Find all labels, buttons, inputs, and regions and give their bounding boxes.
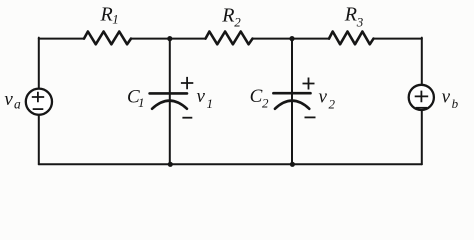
svg-text:v: v bbox=[197, 86, 206, 107]
svg-text:v: v bbox=[4, 89, 13, 110]
wire top rail between node 2 and R3 bbox=[292, 38, 329, 40]
wire capacitor C2 branch bbox=[291, 39, 293, 165]
svg-text:C: C bbox=[250, 86, 263, 107]
node 2 (top junction R2/R3/C2) bbox=[289, 36, 294, 41]
resistor R2 bbox=[206, 32, 253, 45]
C1 polarity minus bbox=[182, 117, 192, 119]
capacitor C1 bbox=[150, 93, 187, 108]
wire left branch upper bbox=[38, 39, 40, 89]
resistor R1 bbox=[84, 32, 131, 45]
wire bottom rail bbox=[39, 163, 422, 165]
wire top rail between R2 and node 2 bbox=[253, 38, 293, 40]
wire top rail left segment bbox=[39, 38, 84, 39]
svg-text:2: 2 bbox=[262, 95, 269, 110]
node 1 (top junction R1/R2/C1) bbox=[167, 36, 172, 41]
node 3 (bottom junction under C1) bbox=[168, 162, 173, 167]
svg-text:a: a bbox=[14, 96, 21, 111]
svg-text:2: 2 bbox=[234, 15, 241, 30]
svg-text:1: 1 bbox=[138, 95, 145, 110]
svg-text:1: 1 bbox=[112, 12, 119, 27]
wire top rail between R1 and node 1 bbox=[131, 38, 170, 40]
svg-text:R: R bbox=[221, 4, 234, 26]
wire top rail right segment bbox=[374, 38, 422, 39]
wire left branch lower bbox=[38, 115, 40, 165]
C2 polarity minus bbox=[305, 116, 316, 118]
resistor R3 bbox=[329, 32, 374, 45]
svg-text:R: R bbox=[100, 4, 113, 26]
capacitor C2 bbox=[273, 93, 310, 109]
C2 polarity plus bbox=[303, 78, 315, 90]
C1 polarity plus bbox=[181, 77, 193, 89]
wire capacitor C1 branch bbox=[169, 39, 171, 165]
wire top rail between node 1 and R2 bbox=[170, 38, 206, 40]
svg-text:v: v bbox=[319, 87, 328, 108]
voltage source vb bbox=[409, 85, 434, 110]
svg-text:R: R bbox=[344, 4, 357, 26]
svg-text:b: b bbox=[452, 96, 459, 111]
svg-text:2: 2 bbox=[329, 96, 336, 111]
node 4 (bottom junction under C2) bbox=[290, 162, 295, 167]
svg-text:1: 1 bbox=[207, 96, 214, 111]
svg-text:3: 3 bbox=[356, 15, 364, 30]
voltage source va bbox=[26, 89, 52, 115]
wire right branch upper bbox=[421, 39, 423, 85]
wire right branch lower bbox=[421, 110, 423, 164]
svg-text:v: v bbox=[442, 86, 451, 107]
